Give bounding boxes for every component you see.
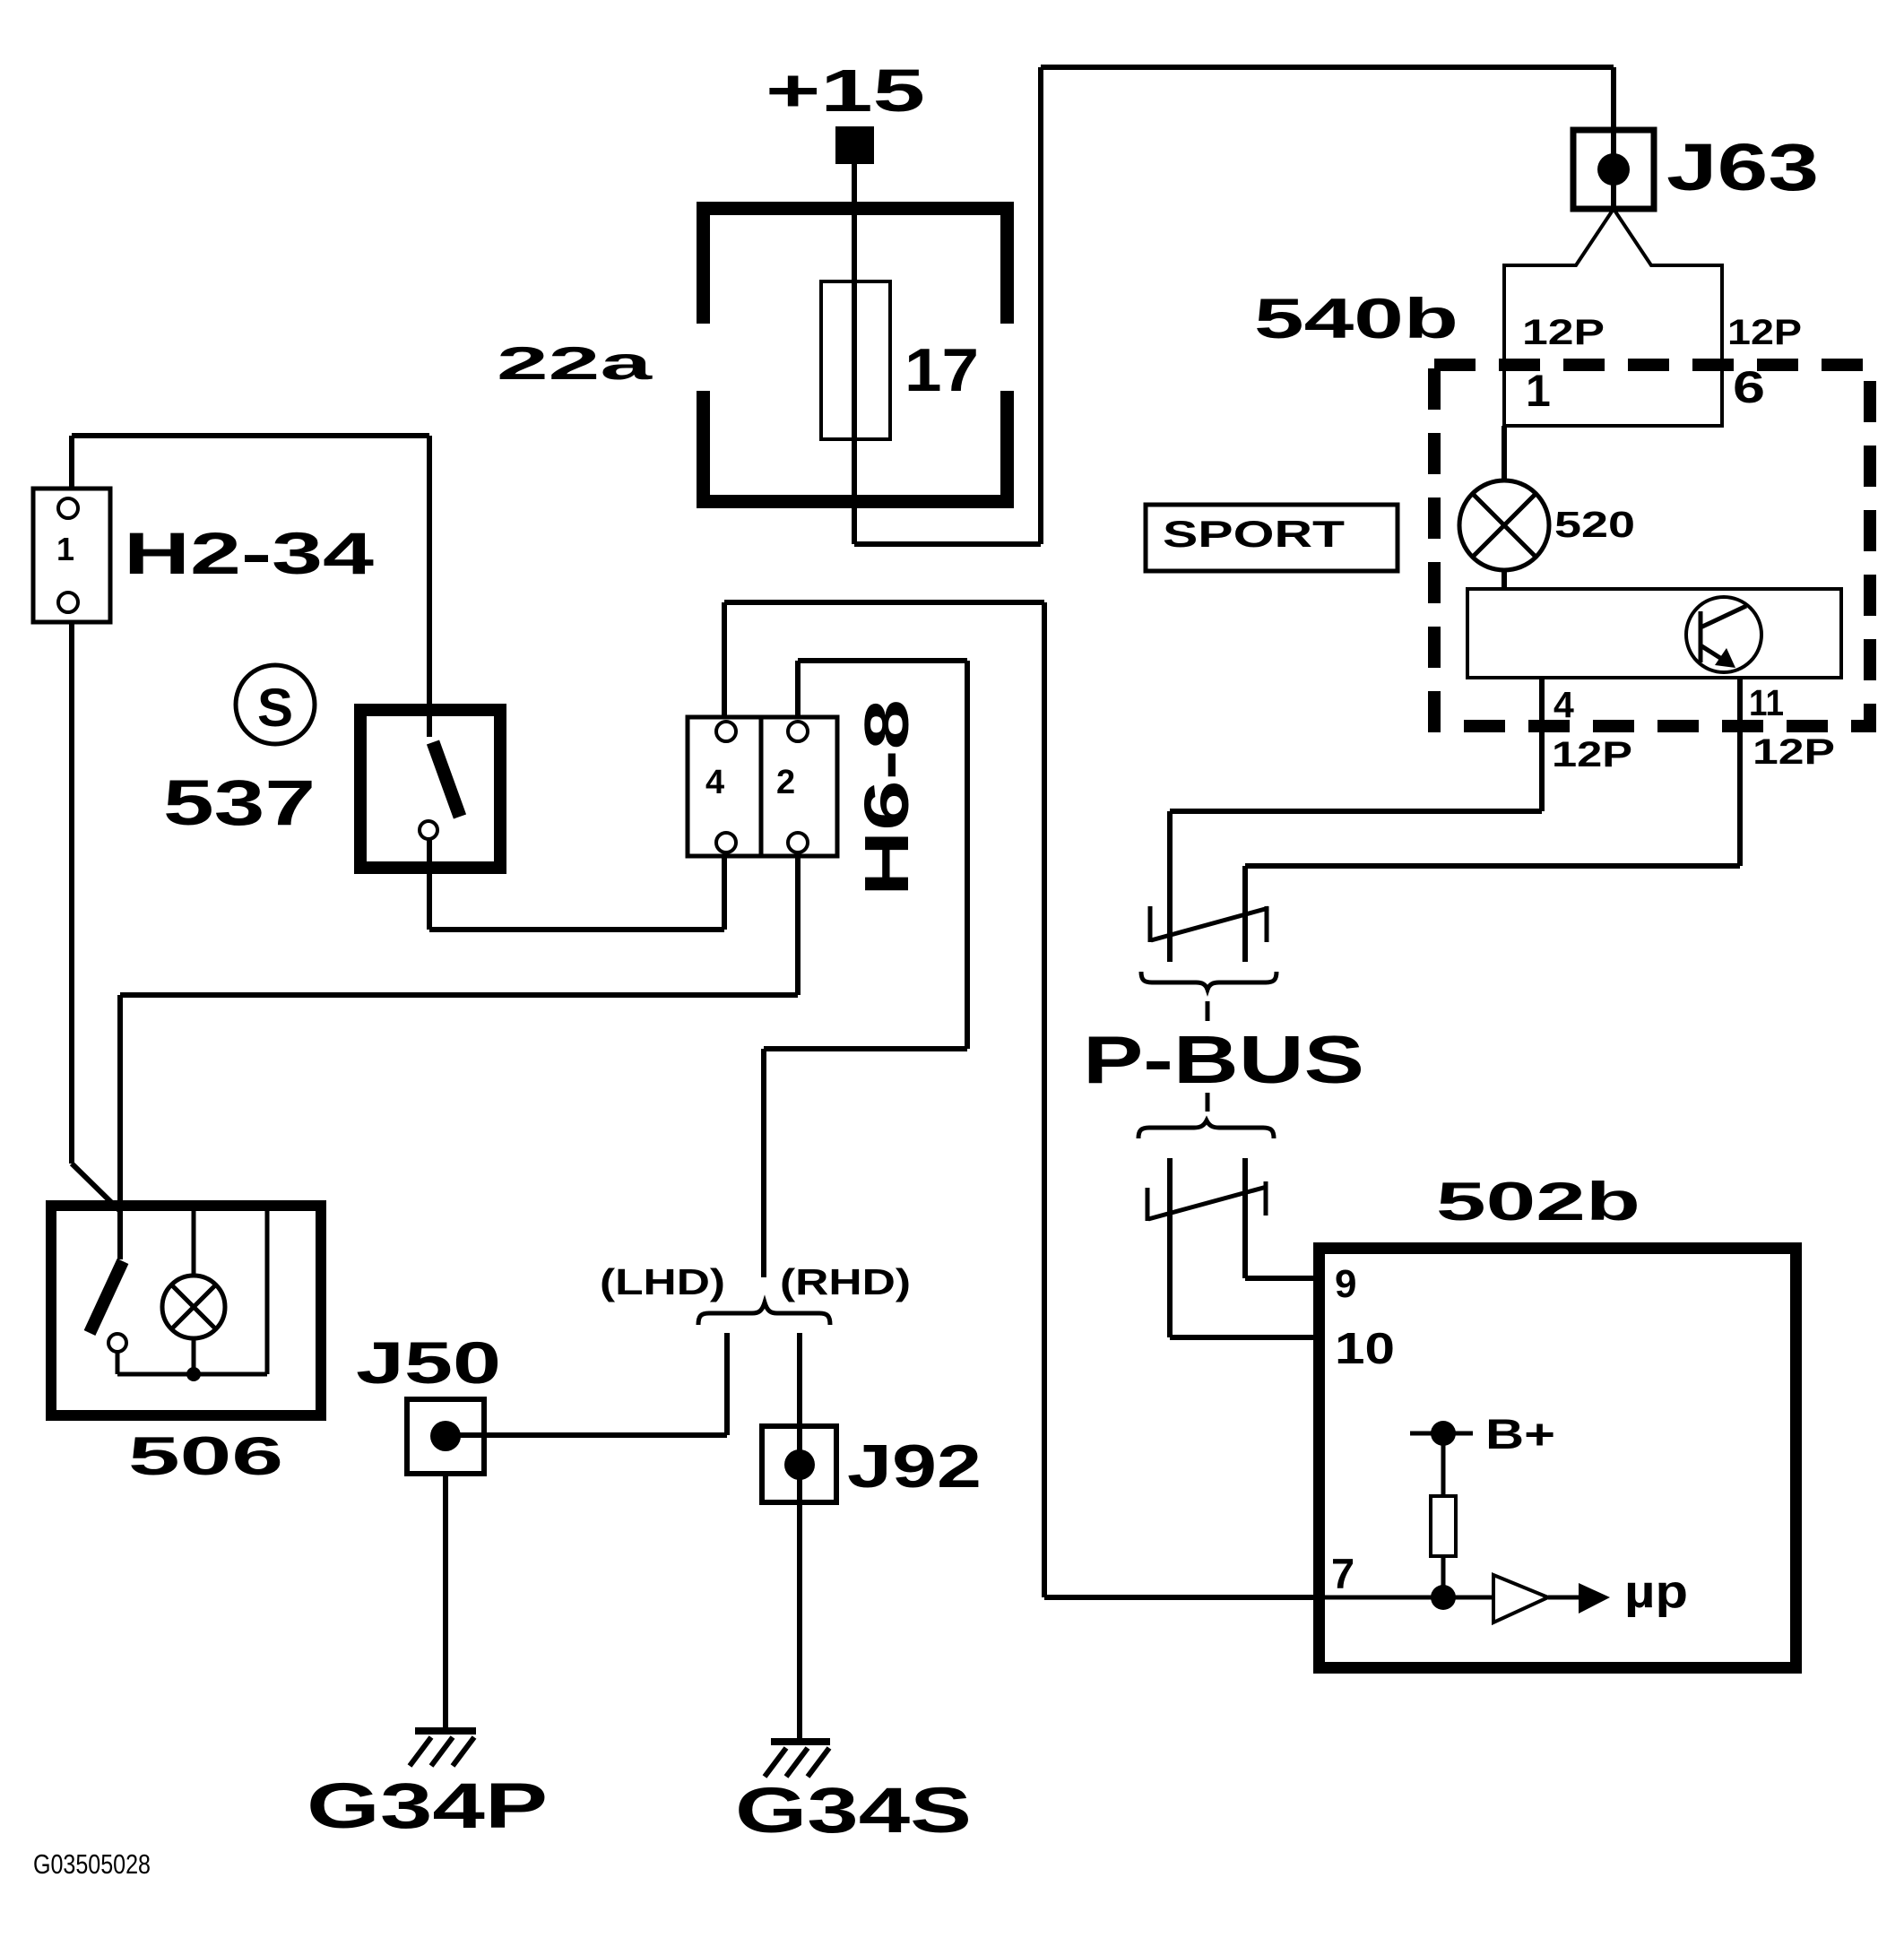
wire 537 to H6-8 — [429, 927, 724, 932]
gauge module box — [1467, 589, 1841, 678]
fuse 17 body — [821, 281, 890, 439]
svg-text:G03505028: G03505028 — [33, 1848, 151, 1880]
wire H2-34 to switch 537 — [72, 433, 429, 438]
connector H2-34 pin circles — [58, 498, 78, 518]
svg-text:4: 4 — [705, 764, 724, 801]
svg-text:P-BUS: P-BUS — [1083, 1022, 1364, 1097]
twisted pair symbol lower — [1146, 1188, 1150, 1221]
svg-text:7: 7 — [1331, 1550, 1354, 1597]
svg-text:22a: 22a — [497, 338, 653, 390]
junction dot pin7 node — [1431, 1585, 1456, 1610]
svg-text:12P: 12P — [1753, 732, 1835, 772]
svg-text:12P: 12P — [1727, 313, 1802, 352]
wire pin2 run left — [764, 1046, 967, 1051]
svg-text:520: 520 — [1554, 504, 1635, 545]
wire 506 right riser — [265, 1206, 270, 1374]
switch 537 arm — [433, 742, 460, 817]
brace LHD RHD — [698, 1302, 830, 1325]
wire long drop to 502b pin 7 — [1042, 602, 1047, 1597]
connector H6-8 body right — [761, 717, 837, 856]
junction J50 dot — [430, 1421, 461, 1451]
svg-text:J50: J50 — [356, 1329, 501, 1396]
wire drop into 506 — [117, 995, 123, 1259]
svg-text:H2-34: H2-34 — [124, 520, 374, 586]
switch 537 border — [354, 704, 506, 874]
junction J63 wire through — [1611, 130, 1616, 209]
svg-text:SPORT: SPORT — [1163, 513, 1345, 555]
sensor symbol S — [236, 665, 315, 744]
wire up into H6-8 pin 4 — [722, 856, 727, 930]
wire pin4 top run right — [724, 600, 1044, 605]
svg-text:H6-8: H6-8 — [852, 699, 922, 896]
node B+ dot — [1431, 1421, 1456, 1446]
SPORT mode label box — [1146, 505, 1398, 571]
node B+ bar — [1410, 1432, 1473, 1436]
svg-text:9: 9 — [1335, 1262, 1356, 1306]
svg-text:10: 10 — [1335, 1325, 1395, 1373]
junction J63 dot — [1597, 153, 1630, 186]
wire H6-8 pin2 bottom drop — [795, 856, 801, 995]
wire lamp bottom — [192, 1338, 196, 1374]
power source +15 terminal square — [835, 126, 874, 164]
wire J50 to brace — [446, 1432, 727, 1438]
buffer amplifier triangle — [1493, 1575, 1548, 1622]
connector H6-8 pin circles — [716, 722, 736, 741]
svg-text:1: 1 — [1526, 366, 1551, 416]
brace upper — [1141, 972, 1277, 990]
switch 537 contact circle — [420, 821, 437, 839]
wire pin 11 drop — [1737, 678, 1743, 866]
wire pin 4 run left — [1170, 809, 1542, 814]
connector 540b pin box with split from J63 — [1504, 209, 1722, 426]
wire B+ to resistor — [1441, 1433, 1446, 1496]
wire 506 contact down — [116, 1352, 120, 1374]
connector H6-8 body left — [688, 717, 761, 856]
svg-text:537: 537 — [163, 768, 316, 839]
wire diagonal into 506 — [72, 1164, 119, 1210]
wire H2-34 bottom drop — [69, 622, 74, 1164]
wire fuse output to riser — [854, 541, 1041, 547]
wire pin 11 into twist — [1242, 866, 1248, 962]
junction dot 506 — [186, 1367, 201, 1381]
wire drop into 537 — [427, 436, 432, 737]
twisted pair symbol upper — [1148, 906, 1153, 942]
wire resistor to node — [1441, 1556, 1446, 1597]
svg-text:12P: 12P — [1522, 313, 1605, 352]
gauge motor symbol — [1686, 597, 1761, 672]
svg-text:2: 2 — [776, 764, 795, 801]
wire pin2 bottom run left — [120, 992, 798, 998]
svg-text:J63: J63 — [1666, 130, 1819, 204]
svg-text:G34P: G34P — [307, 1771, 548, 1842]
svg-text:12P: 12P — [1552, 735, 1632, 774]
dash to P-BUS — [1206, 1001, 1210, 1021]
svg-text:502b: 502b — [1436, 1172, 1640, 1232]
wire buffer to arrow — [1548, 1596, 1580, 1600]
junction J63 box — [1573, 130, 1654, 209]
svg-text:S: S — [257, 678, 293, 738]
svg-text:17: 17 — [904, 336, 979, 404]
wire RHD to J92 — [797, 1333, 802, 1742]
wire bus right to pin 9 — [1242, 1158, 1248, 1278]
arrow to microprocessor — [1579, 1583, 1610, 1614]
svg-text:4: 4 — [1553, 684, 1574, 725]
wire pin 7 internal — [1313, 1596, 1493, 1600]
switch unit 506 border — [46, 1200, 326, 1421]
wire 537 output — [427, 839, 432, 930]
brace lower — [1138, 1120, 1274, 1138]
wire riser to top bus — [1038, 67, 1043, 544]
wire pin2 drop — [965, 661, 970, 1049]
svg-text:506: 506 — [128, 1426, 283, 1486]
svg-text:G34S: G34S — [735, 1776, 972, 1847]
wire pin 4 into twist — [1167, 811, 1173, 962]
wire into pin 7 — [1044, 1595, 1313, 1600]
wire J50 to ground — [443, 1474, 448, 1731]
svg-text:540b: 540b — [1254, 288, 1458, 350]
wire H2-34 top riser — [69, 436, 74, 489]
wire H6-8 pin2 top riser — [795, 661, 801, 717]
svg-text:B+: B+ — [1485, 1410, 1555, 1458]
svg-text:(RHD): (RHD) — [780, 1261, 911, 1302]
junction J92 dot — [784, 1449, 815, 1480]
resistor pull-up — [1431, 1496, 1456, 1556]
wire pin2 run right — [798, 658, 967, 663]
wire bus left to pin 10 — [1167, 1158, 1173, 1337]
wire lamp to gauge module — [1502, 570, 1507, 589]
wire drop into J63 — [1611, 67, 1616, 130]
indicator lamp 520 — [1459, 480, 1549, 570]
connector H2-34 body — [33, 489, 110, 622]
junction J92 box — [762, 1426, 836, 1502]
svg-text:µp: µp — [1624, 1566, 1688, 1618]
wire top bus to J63 — [1041, 65, 1614, 70]
lamp in 506 — [162, 1276, 225, 1338]
fuse box 22a border — [697, 202, 1014, 508]
dash from P-BUS — [1206, 1093, 1210, 1112]
switch 506 contact circle — [108, 1334, 126, 1352]
ground G34P symbol — [415, 1727, 476, 1735]
svg-text:J92: J92 — [847, 1432, 982, 1501]
ground G34S symbol — [771, 1738, 830, 1745]
wire H6-8 pin4 top riser — [722, 602, 727, 717]
wire pin 11 run left — [1245, 863, 1740, 869]
wire pin2 down to brace — [761, 1049, 766, 1277]
svg-text:11: 11 — [1749, 682, 1784, 723]
control module 502b border — [1313, 1242, 1802, 1674]
svg-text:(LHD): (LHD) — [600, 1261, 725, 1302]
junction J50 box — [407, 1399, 484, 1474]
svg-text:1: 1 — [56, 531, 74, 567]
wire pin 4 drop — [1539, 678, 1545, 811]
wire lamp top — [192, 1206, 196, 1276]
wire 506 bottom bus — [117, 1372, 267, 1377]
wire +15 feed through fuse — [852, 164, 857, 544]
instrument cluster 540b dashed housing — [1434, 365, 1870, 726]
svg-text:+15: +15 — [766, 57, 925, 125]
wire pin 1 to lamp — [1502, 426, 1507, 480]
switch 506 arm — [90, 1261, 123, 1333]
